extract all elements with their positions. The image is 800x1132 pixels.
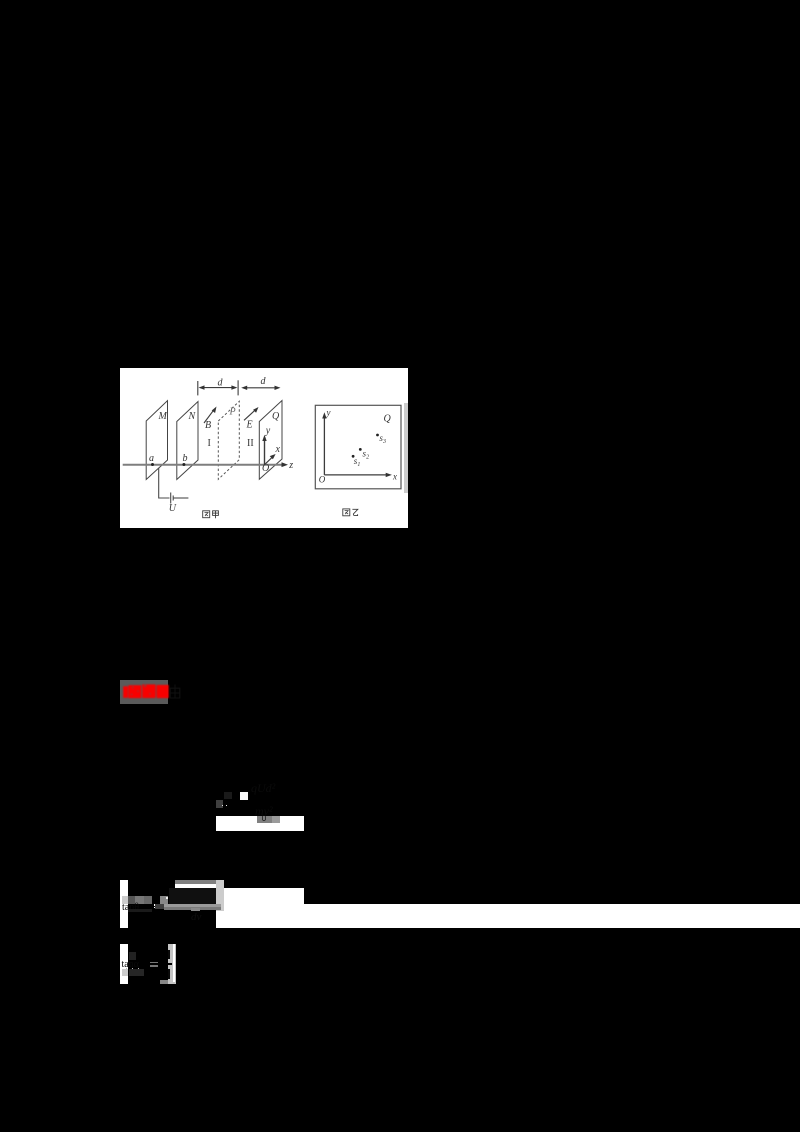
svg-text:b: b bbox=[183, 453, 188, 464]
svg-text:E: E bbox=[246, 420, 253, 431]
svg-text:x: x bbox=[275, 444, 281, 455]
svg-text:Q: Q bbox=[272, 411, 280, 422]
svg-text:d: d bbox=[218, 378, 224, 389]
svg-text:B: B bbox=[205, 420, 211, 431]
svg-text:d: d bbox=[261, 376, 267, 387]
svg-text:3: 3 bbox=[382, 439, 386, 445]
svg-text:a: a bbox=[149, 453, 154, 464]
svg-text:O: O bbox=[319, 475, 326, 485]
svg-text:2: 2 bbox=[366, 454, 369, 460]
svg-text:U: U bbox=[169, 503, 177, 514]
svg-text:x: x bbox=[392, 472, 397, 482]
svg-text:y: y bbox=[326, 408, 331, 418]
svg-text:N: N bbox=[188, 411, 197, 422]
svg-text:1: 1 bbox=[357, 462, 360, 468]
svg-text:Q: Q bbox=[384, 414, 392, 425]
svg-text:II: II bbox=[247, 438, 254, 449]
svg-text:z: z bbox=[288, 460, 293, 471]
svg-text:I: I bbox=[208, 438, 211, 449]
svg-text:O: O bbox=[262, 463, 269, 474]
svg-text:y: y bbox=[265, 426, 271, 437]
svg-text:P: P bbox=[229, 407, 236, 418]
svg-text:M: M bbox=[158, 411, 168, 422]
